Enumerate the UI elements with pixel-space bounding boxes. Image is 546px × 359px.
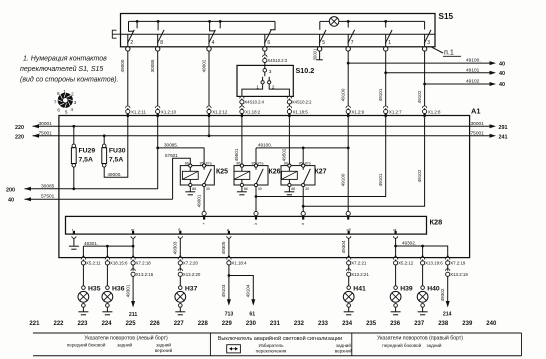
connector X1.2:12 — [207, 106, 211, 108]
lamp H37 wiring — [179, 276, 181, 285]
svg-text:239: 239 — [462, 321, 473, 327]
connector X7.2:19 — [447, 256, 449, 259]
hazard switch section S10.2 box — [237, 65, 293, 96]
svg-text:переключения: переключения — [256, 348, 287, 353]
footer divider 1 — [209, 333, 211, 356]
S15 pin 1 — [384, 30, 393, 51]
left arrow 220 (30001) — [33, 124, 40, 128]
relay К25 box — [180, 166, 214, 185]
svg-text:30085: 30085 — [150, 59, 155, 72]
svg-text:X1.2:10: X1.2:10 — [161, 109, 177, 114]
relay К26 pins — [240, 164, 243, 167]
S10.2 internal wires — [242, 84, 290, 100]
K28 input terminal п — [301, 211, 305, 215]
relay К27 coil — [282, 171, 298, 179]
svg-text:49103: 49103 — [221, 284, 226, 297]
svg-text:211: 211 — [129, 312, 137, 318]
svg-text:X4S10.2:4: X4S10.2:4 — [244, 100, 264, 105]
S15 contact bus left — [129, 20, 276, 22]
S15 pin 6 — [263, 30, 272, 51]
wire 49100 branch to 40 — [348, 62, 493, 64]
column scale numbers — [29, 321, 497, 327]
svg-text:49101: 49101 — [378, 173, 383, 186]
lamp H41 wiring — [348, 276, 350, 285]
svg-text:Х13.2:21: Х13.2:21 — [351, 272, 369, 277]
connector X1.2:9 — [346, 106, 350, 108]
svg-text:30085.: 30085. — [164, 143, 178, 148]
svg-text:боковой: боковой — [404, 342, 422, 348]
svg-text:1: 1 — [388, 40, 391, 46]
wire X1.2:12 to bus 75001 — [208, 117, 210, 136]
svg-text:87а: 87а — [305, 161, 311, 165]
svg-text:232: 232 — [294, 321, 305, 327]
svg-text:234: 234 — [342, 321, 353, 327]
connector X1.2:7 — [384, 106, 388, 108]
S15 pin 4 — [207, 30, 216, 51]
flasher unit K28 box — [66, 216, 427, 234]
svg-text:2: 2 — [272, 85, 275, 91]
svg-text:236: 236 — [390, 321, 401, 327]
svg-text:Х1.18:4: Х1.18:4 — [231, 261, 247, 266]
wire 49002 from pin 4 — [208, 51, 210, 109]
svg-text:200: 200 — [6, 187, 15, 193]
wire 49001 K25 output to K28 — [203, 187, 205, 212]
svg-text:S15: S15 — [439, 12, 454, 21]
svg-text:3: 3 — [74, 100, 77, 105]
svg-text:7,5А: 7,5А — [109, 157, 123, 164]
wire from pin 6 to S10.2 — [264, 51, 266, 58]
right exit 30001 to 291 — [470, 125, 493, 127]
connector X1.18:5 — [287, 106, 291, 108]
footer rule bottom — [33, 355, 522, 357]
svg-text:X1.2:11: X1.2:11 — [131, 109, 146, 114]
svg-text:3: 3 — [269, 69, 272, 75]
svg-text:Выключатель аварийной световой: Выключатель аварийной световой сигнализа… — [218, 335, 343, 342]
S10.2 contact 2 — [268, 81, 271, 84]
pin 3 fixed contact drop — [424, 21, 426, 29]
wire S10.2 outputs to row connectors — [241, 104, 243, 109]
svg-text:X1.18:5: X1.18:5 — [293, 109, 309, 114]
connector X13.2:19 — [446, 269, 450, 271]
svg-text:задний: задний — [336, 342, 351, 348]
svg-text:49104: 49104 — [246, 284, 251, 297]
svg-text:6: 6 — [57, 107, 60, 112]
svg-text:FU30: FU30 — [109, 148, 126, 155]
relay К26 box — [234, 166, 268, 185]
svg-text:49100: 49100 — [341, 88, 346, 101]
wires to off-page 713 and 61 — [229, 265, 253, 304]
svg-text:49000.: 49000. — [108, 172, 122, 177]
svg-text:224: 224 — [102, 321, 113, 327]
wire 30085 to K25 pin 87a — [157, 117, 159, 189]
pin 5 fixed contact drop — [319, 21, 321, 29]
wire 49101 down from X1.2:7 — [256, 117, 386, 196]
connector X4S10.2:4 — [240, 96, 244, 98]
wire 30085 from pin 8 — [157, 51, 159, 109]
svg-text:X1.2:8: X1.2:8 — [428, 109, 441, 114]
S10.2 pin 3 — [263, 69, 267, 73]
svg-text:Х18.15:6: Х18.15:6 — [110, 261, 128, 266]
wire 49100 from pin 7 — [347, 51, 349, 109]
svg-text:Х13.2:20: Х13.2:20 — [183, 272, 201, 277]
connector X1.18:4 — [228, 256, 230, 259]
svg-text:S10.2: S10.2 — [296, 66, 315, 75]
svg-text:30001: 30001 — [39, 121, 53, 127]
svg-text:49305: 49305 — [221, 241, 226, 254]
svg-text:7: 7 — [54, 100, 57, 105]
hazard button icon — [227, 345, 241, 353]
svg-text:49502: 49502 — [282, 148, 287, 161]
svg-text:X1.18:2: X1.18:2 — [245, 109, 261, 114]
svg-text:Избиратель: Избиратель — [258, 343, 284, 348]
K28 input terminal + — [202, 211, 206, 215]
svg-text:228: 228 — [198, 321, 209, 327]
svg-text:переключателей S1, S15: переключателей S1, S15 — [20, 65, 103, 73]
relay К25 ground — [189, 187, 191, 192]
svg-text:30: 30 — [258, 187, 262, 191]
svg-text:X1.2:7: X1.2:7 — [389, 109, 402, 114]
relay К27 ground — [288, 187, 290, 192]
connector X1.2:11 — [126, 106, 130, 108]
svg-text:5: 5 — [65, 109, 68, 114]
wire 49101 branch to 40 — [386, 72, 493, 74]
svg-text:3: 3 — [427, 40, 430, 46]
svg-text:40: 40 — [499, 61, 505, 67]
connector X13.2:20 — [178, 269, 182, 271]
wire into S10.2 pin 3 — [264, 63, 266, 69]
svg-text:Х5.2:11: Х5.2:11 — [86, 261, 101, 266]
svg-text:221: 221 — [29, 321, 40, 327]
svg-text:Х13.2:19: Х13.2:19 — [450, 272, 468, 277]
svg-text:верхний: верхний — [155, 347, 173, 353]
S10.2 contact 1 — [261, 81, 264, 84]
lamp H35 wiring — [82, 265, 84, 286]
svg-text:713: 713 — [225, 311, 234, 317]
svg-text:Х7.2:18: Х7.2:18 — [136, 261, 152, 266]
wire 49102 branch to 40 — [425, 83, 493, 85]
svg-text:49002: 49002 — [202, 59, 207, 72]
footer divider 3 — [521, 333, 523, 356]
lamp H39 wiring — [395, 265, 397, 286]
svg-text:4: 4 — [212, 40, 215, 46]
svg-text:220: 220 — [15, 125, 24, 131]
svg-text:49101: 49101 — [466, 67, 480, 73]
svg-text:40: 40 — [499, 82, 505, 88]
svg-text:49102: 49102 — [417, 90, 422, 103]
svg-text:Н41: Н41 — [353, 285, 366, 292]
svg-text:230: 230 — [246, 321, 257, 327]
wire to off-page 214 — [447, 276, 449, 305]
relay К27 contact — [302, 167, 304, 170]
bus 57501 — [25, 198, 173, 200]
right exit 75001 to 241 — [470, 135, 493, 137]
S15 pin 3 — [422, 30, 431, 51]
svg-text:237: 237 — [414, 321, 425, 327]
pin 7 fixed contact post — [347, 21, 349, 27]
svg-text:2: 2 — [71, 91, 74, 96]
bus 30001 — [33, 125, 470, 127]
lamp H36 wiring — [106, 265, 108, 286]
svg-text:75001: 75001 — [39, 130, 53, 136]
pin 2 fixed contact posts — [129, 21, 138, 31]
wire to off-page 211 — [132, 265, 134, 271]
relay К27 pins — [288, 164, 291, 167]
fuse FU29 — [71, 125, 95, 190]
connector X5.2:11 — [82, 256, 84, 259]
lamp H40 wiring — [422, 265, 424, 286]
svg-text:6: 6 — [267, 40, 270, 46]
connector X7.2:20 — [179, 256, 181, 259]
svg-text:7: 7 — [351, 40, 354, 46]
S15 pin 8 — [156, 30, 165, 51]
svg-text:49100: 49100 — [341, 173, 346, 186]
wire 49100 to relay contacts K26 K27 — [256, 148, 348, 164]
svg-text:235: 235 — [366, 321, 377, 327]
wire 57501 to K25 pin 86 — [173, 158, 191, 199]
svg-text:Н40: Н40 — [427, 285, 440, 292]
svg-text:241: 241 — [499, 134, 508, 140]
relay К25 coil — [182, 171, 198, 179]
svg-text:85: 85 — [200, 161, 204, 165]
wire 49501 X1.18:2 to K26 — [241, 117, 243, 164]
wire 49301 from K28 lg — [83, 238, 133, 260]
svg-text:задний: задний — [426, 342, 441, 348]
svg-text:223: 223 — [77, 321, 88, 327]
svg-text:49303: 49303 — [173, 241, 178, 254]
svg-text:К28: К28 — [430, 218, 443, 227]
S15 pin 5 — [317, 30, 326, 51]
wire 49303 from K28 b to H37 — [179, 238, 181, 260]
wire K26 output to K28 — [255, 187, 257, 212]
svg-text:Н39: Н39 — [400, 285, 413, 292]
svg-text:57501: 57501 — [165, 153, 178, 158]
pin 6 fixed contact hook — [270, 21, 275, 29]
svg-text:Н37: Н37 — [185, 285, 198, 292]
unit A1 box — [59, 116, 470, 258]
svg-text:(вид со стороны контактов).: (вид со стороны контактов). — [20, 76, 119, 84]
svg-text:Указатели поворотов (левый бор: Указатели поворотов (левый борт) — [84, 334, 168, 341]
relay К25 pins — [189, 164, 192, 167]
svg-text:К27: К27 — [315, 169, 327, 176]
svg-text:Х7.2:19: Х7.2:19 — [450, 261, 466, 266]
svg-text:X1.2:12: X1.2:12 — [212, 109, 228, 114]
svg-text:30001: 30001 — [312, 48, 317, 60]
svg-text:40: 40 — [8, 198, 14, 204]
S15 pin 2 — [126, 30, 135, 51]
svg-text:X4S10.2:2: X4S10.2:2 — [292, 100, 312, 105]
svg-text:49001: 49001 — [196, 194, 201, 207]
connector X13.2:16 — [131, 269, 135, 271]
left arrow 200 (30085) — [25, 187, 32, 191]
footer rule top — [33, 332, 522, 334]
wire 49302 from K28 m — [396, 238, 448, 260]
connector X1.18:2 — [240, 106, 244, 108]
svg-text:220: 220 — [15, 134, 24, 140]
connector X5.2:12 — [395, 256, 397, 259]
svg-text:85: 85 — [252, 161, 256, 165]
svg-text:задний: задний — [156, 341, 171, 347]
svg-text:верхний: верхний — [335, 347, 353, 353]
pin 4 fixed contact posts — [210, 21, 221, 31]
left arrow 40 (57501) — [25, 197, 32, 201]
svg-text:49301.: 49301. — [84, 241, 98, 246]
wire 49102 from pin 3 — [424, 51, 426, 109]
S15 lever symbol — [112, 30, 120, 38]
fuse FU30 — [102, 134, 126, 167]
connector X7.2:21 — [348, 256, 350, 259]
svg-text:49302: 49302 — [440, 288, 445, 301]
wire 49102 down from X1.2:8 — [303, 117, 424, 206]
svg-text:X1.2:9: X1.2:9 — [351, 109, 364, 114]
svg-text:49101: 49101 — [378, 88, 383, 101]
connector X1.2:10 — [156, 106, 160, 108]
svg-text:30: 30 — [305, 187, 309, 191]
svg-text:A1: A1 — [471, 107, 480, 116]
K28 ground terminal wire — [73, 238, 75, 245]
pin 1 fixed contact post — [385, 21, 387, 27]
svg-text:214: 214 — [443, 311, 452, 317]
svg-text:75001: 75001 — [471, 130, 485, 136]
svg-text:49102: 49102 — [417, 169, 422, 182]
footer divider 2 — [351, 333, 353, 356]
svg-text:передний: передний — [382, 342, 403, 348]
svg-text:Н36: Н36 — [112, 285, 125, 292]
svg-text:87а: 87а — [206, 161, 212, 165]
connector X13.19:6 — [422, 256, 424, 259]
svg-text:49302.: 49302. — [402, 241, 416, 246]
relay К26 coil — [234, 171, 250, 179]
svg-text:85: 85 — [299, 161, 303, 165]
svg-text:229: 229 — [222, 321, 233, 327]
bus 75001 — [33, 135, 470, 137]
svg-text:57501: 57501 — [41, 194, 55, 200]
svg-text:К25: К25 — [216, 169, 228, 176]
contact numbering rosette — [54, 89, 77, 114]
K28 input terminal kl — [346, 211, 350, 215]
wire 49000 from pin 2 — [127, 51, 129, 109]
wire K27 output to K28 — [302, 187, 304, 212]
connector X4S10.2:3 — [263, 55, 267, 57]
svg-text:49501: 49501 — [234, 148, 239, 161]
svg-text:задний: задний — [117, 341, 132, 347]
svg-text:49301: 49301 — [125, 284, 130, 297]
lamp in S15 — [329, 17, 339, 27]
svg-text:49000: 49000 — [120, 59, 125, 72]
svg-text:X4S10.2:3: X4S10.2:3 — [268, 58, 288, 63]
bus 30085 — [25, 188, 159, 190]
svg-text:87а: 87а — [258, 161, 264, 165]
K28 input terminal л — [254, 211, 258, 215]
note pointer n.1 — [431, 47, 443, 53]
connector X7.2:18 — [132, 256, 134, 259]
wire 49101 from pin 1 — [385, 51, 387, 109]
connector X13.2:21 — [347, 269, 351, 271]
svg-text:п: п — [302, 221, 304, 226]
S15 contact bus right — [320, 20, 330, 22]
svg-text:88: 88 — [291, 187, 295, 191]
svg-text:231: 231 — [270, 321, 281, 327]
svg-text:п.1: п.1 — [444, 48, 454, 57]
svg-text:227: 227 — [174, 321, 185, 327]
wire 49100 down to K28 — [347, 117, 349, 211]
left arrow 220 (75001) — [33, 134, 40, 138]
svg-text:4: 4 — [71, 107, 74, 112]
svg-text:49100.: 49100. — [258, 143, 272, 148]
svg-text:30: 30 — [206, 187, 210, 191]
wire 49502 X1.18:5 to K27 — [288, 117, 290, 164]
svg-text:боковой: боковой — [88, 341, 106, 347]
svg-text:49304: 49304 — [341, 240, 346, 253]
svg-text:291: 291 — [499, 125, 508, 131]
svg-text:1. Нумерация контактов: 1. Нумерация контактов — [23, 56, 107, 63]
svg-text:30085: 30085 — [41, 183, 55, 189]
svg-text:Х13.19:6: Х13.19:6 — [425, 261, 443, 266]
svg-text:2: 2 — [130, 40, 133, 46]
switch S15 box — [121, 14, 436, 47]
relay К26 contact — [255, 167, 257, 170]
wire 49305 from K28 to X1.18:4 — [228, 238, 230, 260]
connector X18.15:6 — [106, 256, 108, 259]
svg-text:88: 88 — [192, 187, 196, 191]
svg-text:61: 61 — [249, 311, 255, 317]
connector X4S10.2:2 — [287, 96, 291, 98]
svg-text:К26: К26 — [269, 169, 281, 176]
svg-text:40: 40 — [499, 71, 505, 77]
svg-text:передний: передний — [67, 341, 88, 347]
svg-text:240: 240 — [486, 321, 497, 327]
svg-text:30001: 30001 — [471, 121, 485, 127]
svg-text:225: 225 — [126, 321, 137, 327]
svg-text:Х5.2:12: Х5.2:12 — [398, 261, 414, 266]
svg-text:86: 86 — [185, 161, 189, 165]
svg-text:Указатели поворотов (правый бо: Указатели поворотов (правый борт) — [377, 334, 463, 341]
svg-text:88: 88 — [244, 187, 248, 191]
svg-text:8: 8 — [57, 91, 60, 96]
wire 49304 from K28 to H41 — [348, 238, 350, 260]
relay К27 box — [281, 166, 315, 185]
svg-text:Х13.2:16: Х13.2:16 — [136, 272, 154, 277]
S15 lever line — [121, 33, 436, 35]
svg-text:222: 222 — [53, 321, 64, 327]
svg-text:49100.: 49100. — [466, 58, 481, 64]
svg-text:7,5А: 7,5А — [79, 157, 93, 164]
S15 pin 7 — [346, 30, 355, 51]
relay К26 ground — [241, 187, 243, 192]
svg-text:8: 8 — [160, 40, 163, 46]
svg-text:226: 226 — [150, 321, 161, 327]
connector X1.2:8 — [422, 106, 426, 108]
svg-text:Н35: Н35 — [88, 285, 101, 292]
svg-text:233: 233 — [318, 321, 329, 327]
svg-text:1: 1 — [63, 89, 66, 94]
svg-text:49102: 49102 — [466, 79, 480, 85]
wire 49000 FU30 to X1.2:11 — [104, 117, 128, 177]
pin 5 terminator wire 30001 — [319, 51, 321, 60]
svg-text:238: 238 — [438, 321, 449, 327]
relay К25 contact — [203, 167, 205, 170]
svg-text:FU29: FU29 — [79, 148, 96, 155]
S10.2 moving contact — [264, 72, 266, 76]
pin 8 fixed contact post — [157, 21, 159, 30]
svg-text:5: 5 — [322, 40, 325, 46]
svg-text:Х7.2:21: Х7.2:21 — [351, 261, 367, 266]
svg-text:Х7.2:20: Х7.2:20 — [183, 261, 199, 266]
